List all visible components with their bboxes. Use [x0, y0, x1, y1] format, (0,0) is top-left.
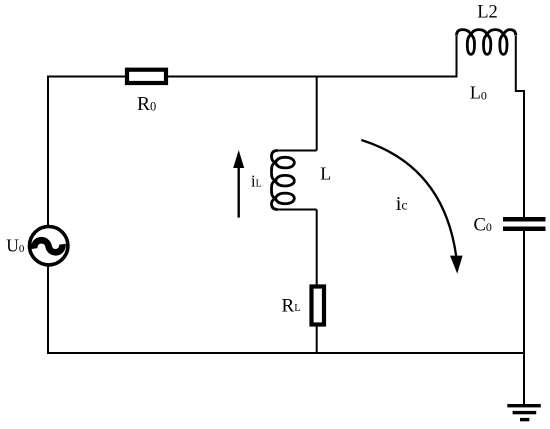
wire left rail lower [47, 265, 49, 354]
wire middle branch L to RL [316, 210, 318, 287]
inductor L [272, 151, 295, 210]
resistor R0 [127, 70, 166, 83]
source U0 circle [30, 227, 68, 265]
wire inductor L top jog [277, 150, 317, 152]
capacitor C0 top plate [503, 217, 546, 222]
inductor L2 [457, 30, 516, 55]
ground [507, 404, 541, 421]
wire middle branch upper [316, 77, 318, 151]
source U0 sine [34, 240, 62, 252]
capacitor C0 bottom plate [503, 227, 546, 232]
resistor RL [312, 287, 325, 325]
wire inductor L bottom jog [277, 209, 317, 211]
wire R0 to top-right [168, 76, 457, 78]
arrow iC curve [361, 140, 456, 257]
svg-text:L: L [320, 164, 331, 184]
wire right rail below capacitor C0 [523, 231, 525, 405]
wire L2 right post and jog to right rail [516, 36, 524, 218]
arrow iL [237, 166, 239, 218]
wire top-left horizontal to R0 [48, 76, 125, 78]
svg-text:L2: L2 [477, 3, 498, 23]
wire RL to bottom [316, 325, 318, 354]
wire bottom horizontal [48, 352, 524, 354]
wire L2 left post [456, 36, 458, 78]
wire left rail upper [47, 76, 49, 227]
